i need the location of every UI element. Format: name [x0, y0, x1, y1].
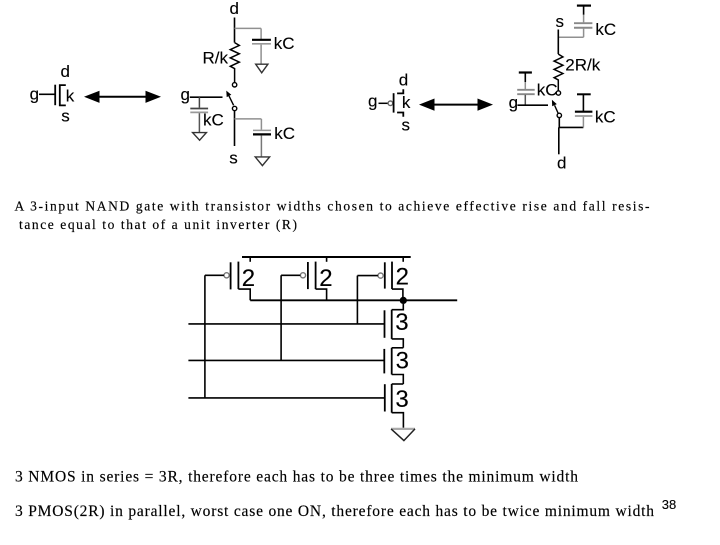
top plate bar (source cap)	[577, 4, 591, 6]
nmos N2 channel	[391, 348, 393, 375]
input line A	[188, 397, 384, 399]
svg-text:A 3-input NAND gate with trans: A 3-input NAND gate with transistor widt…	[15, 199, 651, 214]
svg-text:g: g	[368, 91, 377, 110]
source tick P2	[326, 257, 328, 262]
nmos N2 gate bar	[383, 349, 385, 374]
source tick P3	[402, 257, 404, 262]
switch arm with arrow	[229, 96, 234, 105]
pmos P1 gate wire	[205, 274, 224, 276]
PMOS source stub	[397, 113, 403, 117]
nmos N3 drain stub	[392, 383, 404, 385]
pmos P3 drain	[392, 289, 403, 300]
double arrow 2	[432, 104, 480, 106]
svg-text:kC: kC	[274, 124, 295, 143]
ground (gate cap)	[193, 133, 207, 141]
ground (NAND)	[391, 428, 415, 430]
svg-text:k: k	[66, 87, 75, 106]
PMOS gate bar	[393, 93, 395, 112]
svg-text:kC: kC	[274, 34, 295, 53]
svg-text:3: 3	[395, 386, 408, 413]
wire s down	[557, 30, 559, 55]
pmos P2 bubble	[300, 273, 305, 278]
nmos N2 drain stub	[392, 347, 404, 349]
svg-text:kC: kC	[595, 108, 616, 127]
svg-text:2: 2	[396, 264, 409, 291]
pmos P2 channel	[315, 262, 317, 290]
svg-text:3: 3	[395, 309, 408, 336]
nmos N2 source	[392, 375, 404, 385]
svg-text:s: s	[61, 107, 70, 126]
nmos N3 gate bar	[384, 384, 386, 411]
svg-text:kC: kC	[537, 81, 558, 100]
wire branch to drain cap	[559, 126, 584, 128]
ground (source cap)	[255, 157, 269, 166]
drain cap top bar	[577, 93, 591, 95]
nmos N3 channel	[391, 384, 393, 413]
switch contact bottom	[232, 106, 236, 110]
PMOS gate bubble	[388, 101, 393, 106]
output line	[250, 299, 457, 301]
pmos P3 bubble	[378, 273, 383, 278]
VDD rail	[242, 256, 411, 258]
svg-text:kC: kC	[203, 111, 224, 130]
svg-text:k: k	[402, 93, 411, 112]
pmos P3 gate wire	[357, 275, 378, 277]
svg-text:3 NMOS in series = 3R, therefo: 3 NMOS in series = 3R, therefore each ha…	[15, 469, 578, 486]
source tick P1	[249, 257, 251, 262]
pmos P1 channel	[237, 262, 239, 290]
pmos P2 gate bar	[307, 262, 309, 289]
svg-text:tance equal to that of a unit: tance equal to that of a unit inverter (…	[19, 217, 297, 232]
svg-text:g: g	[30, 84, 39, 103]
pmos P3 gate bar	[384, 262, 386, 288]
input line B	[188, 359, 384, 361]
wire below switch	[558, 118, 560, 128]
wire g	[190, 96, 223, 98]
svg-text:2R/k: 2R/k	[565, 55, 600, 74]
double arrow 1	[97, 96, 148, 98]
wire to d	[558, 127, 560, 154]
gate cap top bar	[519, 71, 532, 73]
nmos N1 source	[392, 339, 404, 348]
pmos P1 drain	[238, 289, 250, 300]
svg-text:kC: kC	[595, 20, 616, 39]
svg-text:d: d	[557, 154, 566, 173]
capacitor kC (drain)	[260, 28, 262, 39]
svg-text:R/k: R/k	[203, 48, 229, 67]
wire branch to drain cap	[235, 27, 262, 29]
PMOS drain stub	[397, 89, 403, 93]
svg-text:d: d	[230, 0, 239, 18]
svg-text:g: g	[181, 85, 190, 104]
pmos P1 gate bar	[230, 262, 232, 289]
svg-text:3: 3	[396, 347, 409, 374]
pmos P2 drain	[316, 289, 327, 300]
capacitor kC (gate)	[198, 97, 200, 108]
svg-text:38: 38	[662, 497, 676, 512]
output junction dot	[400, 297, 407, 304]
nmos N1 channel	[391, 310, 393, 339]
svg-text:s: s	[402, 115, 411, 134]
switch contact top	[556, 91, 560, 95]
input vertical A	[204, 275, 206, 398]
nmos N1 drain	[392, 304, 404, 310]
capacitor kC (source, top)	[574, 22, 592, 24]
wire d down	[234, 18, 236, 43]
wire below switch to s	[234, 111, 236, 146]
wire g to bubble	[379, 102, 388, 104]
capacitor kC (drain)	[582, 117, 584, 128]
pmos P3 channel	[391, 262, 393, 290]
svg-text:s: s	[556, 12, 565, 31]
switch contact top	[232, 83, 236, 87]
wire cap to s node	[558, 36, 583, 38]
svg-text:3 PMOS(2R) in parallel, worst: 3 PMOS(2R) in parallel, worst case one O…	[15, 503, 654, 520]
resistor R/k	[230, 43, 239, 83]
input vertical B	[280, 275, 282, 360]
NMOS channel bracket	[60, 85, 66, 105]
nmos N3 source	[392, 413, 404, 428]
pmos P2 gate wire	[281, 274, 300, 276]
resistor 2R/k	[554, 54, 563, 91]
wire g to gate	[39, 93, 55, 95]
svg-text:d: d	[61, 62, 70, 81]
input line C	[188, 323, 384, 325]
nmos N1 gate bar	[384, 310, 386, 338]
svg-text:g: g	[509, 93, 518, 112]
NMOS gate bar	[54, 85, 56, 106]
switch arm with arrow	[555, 105, 559, 113]
switch contact bottom	[557, 113, 561, 117]
pmos P1 bubble	[224, 273, 229, 278]
capacitor kC (source)	[260, 119, 262, 130]
svg-text:d: d	[399, 71, 408, 90]
wire g	[517, 104, 548, 106]
capacitor kC (gate)	[517, 89, 535, 91]
svg-text:2: 2	[319, 265, 332, 292]
svg-text:2: 2	[242, 265, 255, 292]
input vertical C	[356, 276, 358, 324]
svg-text:s: s	[229, 148, 238, 167]
wire branch to source cap	[235, 118, 262, 120]
ground (drain cap)	[256, 64, 268, 73]
